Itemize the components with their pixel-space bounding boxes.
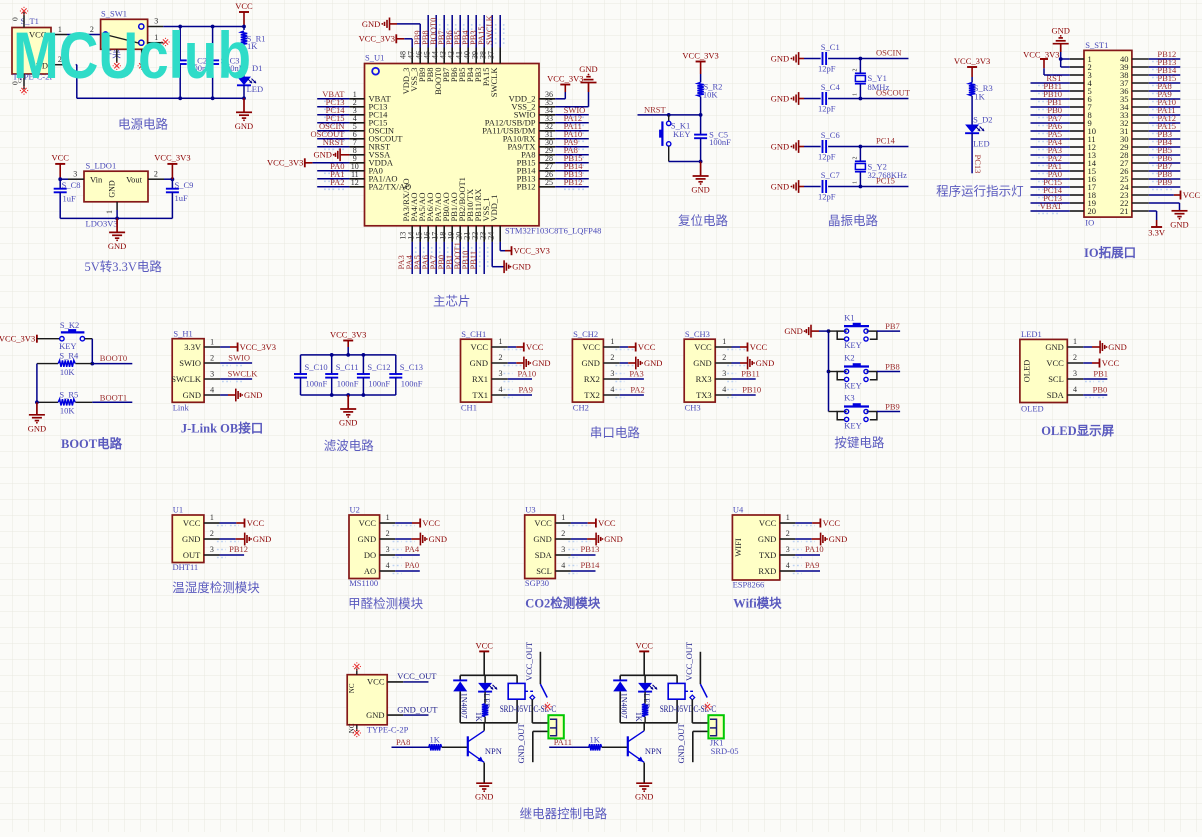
svg-text:100nF: 100nF <box>401 379 423 389</box>
VCC_3V3 flag BOOT <box>0 334 37 344</box>
svg-text:4: 4 <box>610 385 614 394</box>
svg-text:1: 1 <box>210 338 214 347</box>
wire/net PB6 at ST1 right <box>1149 153 1181 166</box>
svg-text:VCC_3V3: VCC_3V3 <box>0 334 35 344</box>
svg-text:S_CH3: S_CH3 <box>685 329 710 339</box>
wire left bus BOOT <box>35 364 39 405</box>
svg-text:S_R4: S_R4 <box>59 351 79 361</box>
wire K2 to BOOT0 <box>90 339 94 366</box>
svg-text:RX1: RX1 <box>472 374 488 384</box>
U1 pin 36 stub <box>539 90 555 99</box>
wire/net PA2 at S_CH2 pin4 <box>615 385 644 398</box>
svg-text:OLED: OLED <box>1022 360 1032 383</box>
svg-text:SRD-05VDC-SL-C: SRD-05VDC-SL-C <box>500 704 557 714</box>
SW1 pin 1 no-connect <box>148 33 170 46</box>
VCC_3V3 flag reset <box>682 50 718 74</box>
wire/net GND_OUT terminal PA11 <box>676 723 709 764</box>
wire/net PB1 at LED1 pin3 <box>1083 368 1108 381</box>
U1 pin 26 stub <box>539 170 555 179</box>
wire/net PB8 at K2 <box>877 361 900 371</box>
svg-text:VCC: VCC <box>823 518 841 528</box>
svg-text:VCC: VCC <box>1183 190 1201 200</box>
svg-text:SWCLK: SWCLK <box>171 374 202 384</box>
wire/net PB9 at U1 top <box>412 15 432 48</box>
relay contact & VCC_OUT PA8 <box>524 641 552 711</box>
svg-text:RX3: RX3 <box>696 374 712 384</box>
ST1 pin 1 stub <box>1070 58 1084 60</box>
svg-text:GND: GND <box>1170 219 1188 229</box>
wire filter bottom rail <box>301 393 396 397</box>
wire bottom rail power <box>76 65 246 101</box>
ST1 pin 15 stub <box>1070 170 1084 172</box>
svg-text:复位电路: 复位电路 <box>678 213 729 228</box>
svg-text:PB0: PB0 <box>1093 384 1108 394</box>
U1 pin 3 stub <box>349 106 364 115</box>
S_CH1 pin 3 stub <box>492 369 508 379</box>
resistor 1K LED PA11 <box>634 692 648 723</box>
svg-text:按键电路: 按键电路 <box>834 435 885 450</box>
ground GND at U2 pin2 <box>393 533 447 546</box>
U1 pin 33 stub <box>539 114 555 123</box>
svg-text:PB1: PB1 <box>1093 368 1108 378</box>
wire/net PC14 <box>859 136 909 149</box>
svg-text:S_CH1: S_CH1 <box>461 329 486 339</box>
svg-text:4: 4 <box>561 561 565 570</box>
svg-text:GND: GND <box>532 358 550 368</box>
ground GND reset <box>691 162 709 195</box>
svg-text:2: 2 <box>610 353 614 362</box>
svg-text:GND: GND <box>313 150 331 160</box>
pushbutton K2 KEY <box>829 353 877 391</box>
svg-text:4: 4 <box>786 561 790 570</box>
section title crystal <box>828 213 879 228</box>
terminal JK1 label <box>710 737 739 756</box>
LDO ground pin 1 <box>105 202 117 219</box>
svg-text:1: 1 <box>610 337 614 346</box>
VCC_3V3 at U1 pin24 VDD_1 <box>500 242 550 256</box>
wire/net PA0 at U1 left <box>317 161 349 174</box>
ground GND at U1 pin2 <box>217 533 271 546</box>
svg-text:BOOT电路: BOOT电路 <box>61 436 123 451</box>
wire/net OSCIN <box>859 48 909 61</box>
svg-text:S_C4: S_C4 <box>821 82 841 92</box>
svg-text:TX3: TX3 <box>696 390 712 400</box>
svg-text:VCC: VCC <box>635 640 653 650</box>
VCC flag at U4 pin1 <box>793 518 841 528</box>
wire/net PB1 at U1 bottom <box>444 242 464 274</box>
svg-text:GND: GND <box>470 358 488 368</box>
wire/net GND_OUT at TYPE-C <box>387 704 438 715</box>
ST1 pin 37 stub <box>1132 82 1149 84</box>
ST1 pin 32 stub <box>1132 122 1149 124</box>
wire/net PA9 at U1 right <box>555 137 589 150</box>
U2 pin 1 stub <box>380 513 396 523</box>
svg-text:SRD-05: SRD-05 <box>711 746 739 756</box>
LED D1 <box>237 63 263 98</box>
wire/net PB15 at ST1 right <box>1149 73 1181 86</box>
svg-text:PA2: PA2 <box>630 385 644 395</box>
ST1 pin 33 stub <box>1132 114 1149 116</box>
svg-text:2: 2 <box>722 353 726 362</box>
svg-text:GND_OUT: GND_OUT <box>397 704 438 714</box>
wire/net PA8 at U1 right <box>555 145 589 158</box>
svg-text:12pF: 12pF <box>818 152 836 162</box>
ST1 pin 6 stub <box>1070 98 1084 100</box>
svg-text:1N4007: 1N4007 <box>619 693 628 719</box>
U3 pin 3 stub <box>555 545 571 555</box>
ground GND power circuit <box>235 98 253 131</box>
ST1 pin 11 stub <box>1070 138 1084 140</box>
S_CH2 pin 2 stub <box>603 353 619 363</box>
svg-text:GND: GND <box>429 534 447 544</box>
ST1 pin 24 stub <box>1132 186 1149 188</box>
svg-text:VCC: VCC <box>422 518 440 528</box>
svg-text:K3: K3 <box>844 393 854 403</box>
ST1 pin 31 stub <box>1132 130 1149 132</box>
diode 1N4007 PA8 <box>453 675 468 723</box>
U1 pin 2 stub <box>204 529 220 539</box>
svg-text:SRD-05VDC-SL-C: SRD-05VDC-SL-C <box>660 704 717 714</box>
svg-text:SGP30: SGP30 <box>525 578 549 588</box>
ground GND at U1 pin8 VSSA <box>313 148 349 161</box>
wire/net OSCOUT <box>859 88 911 101</box>
U4 pin 3 stub <box>780 545 796 555</box>
svg-text:3: 3 <box>1073 369 1077 378</box>
ground GND at ST1 pin 22 <box>1149 203 1189 229</box>
svg-text:1: 1 <box>386 513 390 522</box>
ground GND at S_CH1 pin2 <box>504 357 551 370</box>
S_CH1 pin 1 stub <box>492 337 508 347</box>
wire/net PB4 at U1 top <box>460 15 480 48</box>
U1 pin 37 stub top <box>486 48 500 64</box>
svg-text:VCC: VCC <box>1102 358 1120 368</box>
U1 pin 38 stub top <box>478 48 492 64</box>
wire/net PA15 at ST1 right <box>1149 121 1181 134</box>
wire/net PB0 at ST1 left <box>1031 105 1070 118</box>
transistor NPN PA11 <box>628 723 662 783</box>
U1 pin 16 stub bottom <box>422 226 436 242</box>
svg-text:12pF: 12pF <box>818 104 836 114</box>
svg-text:5V转3.3V电路: 5V转3.3V电路 <box>85 259 163 274</box>
3.3V flag at ST1 pin 21 <box>1148 211 1166 238</box>
ST1 pin 29 stub <box>1132 146 1149 148</box>
svg-text:GND: GND <box>644 358 662 368</box>
wire/net PA11 input <box>549 737 589 748</box>
svg-text:VDD_1: VDD_1 <box>489 195 499 222</box>
ST1 pin 14 stub <box>1070 162 1084 164</box>
ground GND at ST1 pins 1-2 <box>1051 25 1069 67</box>
ground GND at U1 pin23 VSS_1 <box>492 242 531 273</box>
wire/net BOOT0 <box>92 353 132 364</box>
svg-text:3: 3 <box>499 369 503 378</box>
svg-text:2: 2 <box>386 529 390 538</box>
wire/net PC14 at ST1 left <box>1031 185 1070 198</box>
section title WIFI <box>733 596 782 611</box>
svg-text:PB13: PB13 <box>581 544 600 554</box>
capacitor S_C4 12pF <box>804 82 860 114</box>
wire/net PA10 at ST1 right <box>1149 97 1181 110</box>
svg-text:SWCLK: SWCLK <box>484 14 494 45</box>
svg-text:温湿度检测模块: 温湿度检测模块 <box>172 580 260 595</box>
VCC flag at ST1 pin 23 <box>1149 190 1201 200</box>
svg-text:GND: GND <box>512 262 530 272</box>
svg-text:10K: 10K <box>60 406 76 416</box>
svg-text:4: 4 <box>1073 385 1077 394</box>
wire/net PC15 <box>859 176 909 189</box>
svg-text:3.3V: 3.3V <box>184 342 202 352</box>
wire/net PA12 at U1 right <box>555 113 589 126</box>
ST1 pin 25 stub <box>1132 178 1149 180</box>
svg-text:1K: 1K <box>474 712 483 722</box>
wire/net PB7 at K1 <box>877 321 900 331</box>
ST1 pin 9 stub <box>1070 122 1084 124</box>
svg-text:10K: 10K <box>703 89 719 99</box>
wire/net PA3 at U1 bottom <box>396 242 416 274</box>
wire/net PB7 at U1 top <box>436 15 456 48</box>
wire/net PB9 at ST1 right <box>1149 177 1181 190</box>
H1 pin 2 stub <box>204 354 220 364</box>
svg-text:VCC_3V3: VCC_3V3 <box>1023 49 1059 59</box>
LED S_D2 <box>965 114 992 148</box>
svg-text:PA2: PA2 <box>330 177 344 187</box>
svg-text:RX2: RX2 <box>584 374 600 384</box>
svg-text:3: 3 <box>610 369 614 378</box>
ground GND relay PA11 <box>635 783 653 802</box>
connector S_CH1 <box>461 329 492 413</box>
svg-text:PC13: PC13 <box>973 155 983 174</box>
ST1 pin 18 stub <box>1070 194 1084 196</box>
ground GND at U3 pin2 <box>568 533 622 546</box>
ST1 pin 23 stub <box>1132 194 1149 196</box>
svg-text:SCL: SCL <box>1048 374 1064 384</box>
svg-text:BOOT1: BOOT1 <box>100 392 127 402</box>
U4 pin 4 stub <box>780 561 796 571</box>
svg-text:1: 1 <box>499 337 503 346</box>
svg-text:GND: GND <box>362 19 380 29</box>
svg-text:PC14: PC14 <box>876 136 896 146</box>
capacitor S_C1 12pF <box>804 42 860 74</box>
wire/net BOOT1 <box>92 392 132 402</box>
svg-text:PA3: PA3 <box>629 369 643 379</box>
svg-text:NRST: NRST <box>644 104 667 114</box>
capacitor S_C9 1uF <box>166 179 194 218</box>
svg-text:PB10: PB10 <box>742 385 761 395</box>
U1 pin 8 stub <box>349 146 364 155</box>
svg-text:GND: GND <box>604 534 622 544</box>
section title SGP30 <box>525 596 601 611</box>
section title OLED <box>1041 424 1114 438</box>
svg-text:20: 20 <box>1088 206 1097 216</box>
svg-text:VCC_3V3: VCC_3V3 <box>154 153 190 163</box>
U1 pin 28 stub <box>539 154 555 163</box>
svg-text:VCC: VCC <box>694 342 712 352</box>
wire/net GND_OUT terminal PA8 <box>516 723 549 764</box>
svg-text:3: 3 <box>786 545 790 554</box>
terminal block screw PA8 <box>548 715 563 738</box>
wire/net PA4 at ST1 left <box>1031 137 1070 150</box>
svg-text:DHT11: DHT11 <box>173 562 199 572</box>
svg-text:3: 3 <box>73 170 77 179</box>
svg-text:PB7: PB7 <box>885 321 900 331</box>
svg-text:串口电路: 串口电路 <box>590 425 641 440</box>
svg-text:VCC_3V3: VCC_3V3 <box>547 73 583 83</box>
U1 pin 1 stub <box>349 90 364 99</box>
VCC_3V3 flag filter <box>330 329 366 355</box>
section title serial <box>590 425 641 440</box>
ground GND at S_CH3 pin2 <box>727 357 774 370</box>
svg-text:21: 21 <box>1120 206 1129 216</box>
wire/net PB6 at U1 top <box>444 15 464 48</box>
U1 pin 43 stub top <box>438 48 452 64</box>
svg-text:继电器控制电路: 继电器控制电路 <box>520 806 608 821</box>
LED1 pin 4 stub <box>1067 385 1083 395</box>
svg-text:STM32F103C8T6_LQFP48: STM32F103C8T6_LQFP48 <box>505 226 601 236</box>
wire/net PA11 at ST1 right <box>1149 105 1181 118</box>
svg-text:VCC: VCC <box>598 518 616 528</box>
ground GND at U1 pin47 VSS_3 <box>362 18 420 48</box>
relay coil SRD-05VDC-SL-C PA8 <box>500 675 557 723</box>
section title keys <box>834 435 885 450</box>
wire/net PB14 at U1 right <box>555 161 589 174</box>
U1 pin 5 stub <box>349 122 364 131</box>
svg-text:KEY: KEY <box>844 421 861 431</box>
U1 pin 31 stub <box>539 130 555 139</box>
U2 pin 4 stub <box>380 561 396 571</box>
VCC_3V3 at ST1 pin 3 <box>1023 49 1070 75</box>
svg-text:BOOT0: BOOT0 <box>100 353 127 363</box>
U4 pin 1 stub <box>780 513 796 523</box>
svg-text:GND: GND <box>183 390 201 400</box>
U1 pin 2 stub <box>349 98 364 107</box>
svg-text:2: 2 <box>1073 353 1077 362</box>
MCUclub watermark <box>13 18 251 92</box>
svg-text:3.3V: 3.3V <box>1148 228 1166 238</box>
capacitor S_C10 100nF <box>294 355 328 395</box>
U1 pin 46 stub top <box>414 48 428 64</box>
svg-text:J-Link OB接口: J-Link OB接口 <box>181 421 263 436</box>
T1 top pin with no-ERC <box>11 7 29 28</box>
svg-text:OUT: OUT <box>183 550 201 560</box>
LED relay PA8 <box>478 675 497 709</box>
svg-text:NPN: NPN <box>485 746 502 756</box>
wire/net PB8 at U1 top <box>420 15 440 48</box>
svg-text:VCC: VCC <box>638 342 656 352</box>
U1 pin 32 stub <box>539 122 555 131</box>
connector S_CH3 <box>684 329 715 413</box>
svg-text:VCC: VCC <box>582 342 600 352</box>
wire/net PA7 at U1 bottom <box>428 242 448 274</box>
section title relay <box>520 806 608 821</box>
connector S_CH2 <box>572 329 603 413</box>
svg-text:VCC_3V3: VCC_3V3 <box>240 342 276 352</box>
LED1 pin 3 stub <box>1067 369 1083 379</box>
svg-text:25: 25 <box>545 178 553 187</box>
svg-text:OSCIN: OSCIN <box>876 48 902 58</box>
capacitor S_C12 100nF <box>357 355 391 395</box>
svg-text:1: 1 <box>105 210 114 214</box>
ST1 pin 30 stub <box>1132 138 1149 140</box>
wire/net PB10 at S_CH3 pin4 <box>727 385 761 398</box>
H1 pin 3 stub <box>204 370 220 380</box>
resistor 1K base PA8 <box>429 734 468 750</box>
svg-text:LED: LED <box>973 139 990 149</box>
VCC flag at U2 pin1 <box>393 518 441 528</box>
module U2 MS1100 <box>349 505 380 589</box>
wire/net VBAT at ST1 left <box>1031 201 1070 214</box>
ST1 pin 4 stub <box>1070 82 1084 84</box>
svg-text:GND: GND <box>693 358 711 368</box>
wire/net PA3 at S_CH2 pin3 <box>615 369 644 382</box>
capacitor S_C5 100nF <box>694 115 731 162</box>
ST1 pin 22 stub <box>1132 202 1149 204</box>
svg-text:S_U1: S_U1 <box>365 53 384 63</box>
ground GND at LED1 pin1 <box>1083 341 1126 354</box>
wire/net OSCOUT at U1 left <box>310 129 349 142</box>
section title indicator <box>936 184 1024 199</box>
U1 pin 13 stub bottom <box>398 226 412 242</box>
LED relay PA11 <box>638 675 657 709</box>
U1 pin 15 stub bottom <box>414 226 428 242</box>
wire/net PC13 at ST1 left <box>1031 193 1070 206</box>
wire/net PA9 at S_CH1 pin4 <box>504 385 533 398</box>
U3 pin 4 stub <box>555 561 571 571</box>
wire/net PB12 at U1 right <box>555 177 589 190</box>
svg-text:S_C6: S_C6 <box>821 130 840 140</box>
wire relay NO to terminal PA11 <box>692 699 708 723</box>
VCC_3V3 at U1 pin9 VDDA <box>267 158 349 168</box>
wire/net PB1 at ST1 left <box>1031 97 1070 110</box>
wire VCC rail top <box>163 25 246 29</box>
svg-text:滤波电路: 滤波电路 <box>324 438 375 453</box>
wire/net PB11 at ST1 left <box>1031 81 1070 94</box>
svg-text:1: 1 <box>210 513 214 522</box>
VCC_3V3 flag at H1 pin1 <box>220 342 276 352</box>
wire key GND bus <box>819 329 830 411</box>
svg-text:PA4: PA4 <box>405 544 420 554</box>
wire/net PA10 at U1 right <box>555 129 589 142</box>
svg-text:VCC_OUT: VCC_OUT <box>524 641 534 681</box>
svg-text:D1: D1 <box>252 63 262 73</box>
svg-text:2: 2 <box>853 157 859 160</box>
section title LDO <box>85 259 163 274</box>
U1 pin 24 stub bottom <box>486 226 500 242</box>
wire/net PA7 at ST1 left <box>1031 113 1070 126</box>
VCC_3V3 at U1 pin48 VDD_3 <box>359 34 413 48</box>
svg-text:2: 2 <box>154 170 158 179</box>
VCC flag at U1 pin1 <box>217 518 265 528</box>
capacitor S_C6 12pF <box>804 130 860 162</box>
svg-text:GND: GND <box>475 792 493 802</box>
wire/net PB3 at U1 top <box>468 15 488 48</box>
svg-text:3: 3 <box>561 545 565 554</box>
wire/net PC15 at U1 left <box>317 113 349 126</box>
svg-text:S_R5: S_R5 <box>59 389 78 399</box>
U1 pin 22 stub bottom <box>470 226 484 242</box>
svg-text:SDA: SDA <box>1047 390 1065 400</box>
svg-text:OLED: OLED <box>1021 403 1044 413</box>
section title main chip <box>433 295 471 309</box>
transistor NPN PA8 <box>468 723 502 783</box>
relay coil SRD-05VDC-SL-C PA11 <box>660 675 717 723</box>
wire/net PB8 at ST1 right <box>1149 169 1181 182</box>
switch S_SW1 <box>101 9 148 60</box>
VCC flag relay ch PA8 <box>475 640 493 675</box>
svg-text:1uF: 1uF <box>63 194 77 204</box>
svg-text:U4: U4 <box>733 505 744 515</box>
ground GND keys <box>784 325 819 338</box>
svg-text:ESP8266: ESP8266 <box>733 580 765 590</box>
U2 pin 3 stub <box>380 545 396 555</box>
